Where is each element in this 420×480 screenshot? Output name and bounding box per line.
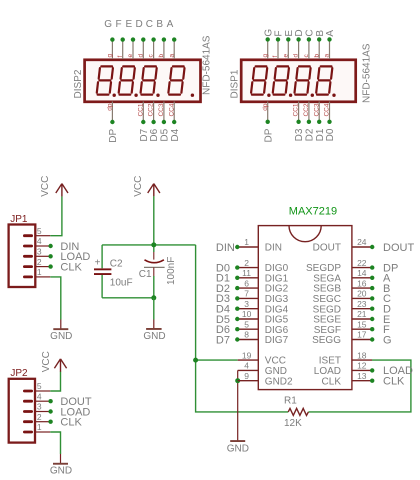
svg-text:22: 22	[357, 258, 367, 268]
svg-text:2: 2	[244, 258, 249, 268]
svg-text:VCC: VCC	[40, 176, 51, 197]
node D2	[235, 286, 239, 290]
wire R1 right to ISET	[308, 360, 411, 412]
pin 12 (LOAD) right	[314, 361, 372, 377]
pin 11 (DIG1) left	[238, 268, 289, 284]
svg-text:17: 17	[357, 330, 367, 340]
node DIN	[235, 245, 239, 249]
connector JP2	[9, 368, 51, 442]
pin 18 (ISET) right	[319, 350, 372, 366]
svg-text:D4: D4	[170, 128, 181, 141]
svg-text:DOUT: DOUT	[313, 243, 341, 254]
pin 16 (SEGB) right	[313, 278, 372, 294]
svg-text:C: C	[146, 19, 153, 30]
svg-text:CC2: CC2	[303, 103, 310, 116]
svg-text:4: 4	[244, 361, 249, 371]
JP2 pins 5 4 3 2 1	[35, 390, 50, 392]
wire C1 bottom to GND	[153, 298, 155, 320]
DISP1 bottom pins dp cc1-cc4	[267, 102, 269, 121]
pin 10 (DIG5) left	[238, 309, 289, 325]
svg-text:5: 5	[37, 381, 42, 391]
JP2 body	[9, 379, 35, 443]
pin 1 (DIN) left	[238, 237, 282, 253]
svg-text:2: 2	[37, 257, 42, 267]
op IC U1 MAX7219	[258, 206, 352, 390]
svg-text:9: 9	[244, 371, 249, 381]
node on JP1 pin 4	[48, 244, 52, 248]
svg-text:23: 23	[357, 299, 367, 309]
node on JP2 pin 2	[48, 420, 52, 424]
svg-text:4: 4	[37, 391, 42, 401]
pin 2 (DIG0) left	[238, 258, 289, 274]
node D7	[235, 337, 239, 341]
svg-text:5: 5	[244, 319, 249, 329]
svg-text:DIN: DIN	[216, 242, 235, 254]
svg-text:3: 3	[244, 299, 249, 309]
svg-text:GND: GND	[50, 331, 72, 342]
wire JP2 pin5 to VCC	[50, 372, 60, 392]
DISP1 digits 8.8.8.8.	[251, 66, 267, 94]
node CLK	[370, 379, 374, 383]
svg-text:A: A	[325, 30, 336, 37]
svg-text:GND: GND	[143, 331, 165, 342]
node D0	[235, 265, 239, 269]
svg-text:CLK: CLK	[60, 417, 82, 429]
svg-text:100nF: 100nF	[166, 257, 177, 285]
svg-text:DP: DP	[263, 128, 274, 142]
pin 15 (SEGF) right	[314, 319, 372, 335]
wire VCC pin19	[196, 359, 238, 361]
svg-text:VCC: VCC	[133, 176, 144, 197]
display DISP1	[229, 29, 372, 143]
svg-text:CC4: CC4	[324, 103, 331, 116]
svg-text:G: G	[383, 334, 392, 346]
capacitor C1	[139, 245, 177, 298]
svg-text:13: 13	[357, 371, 367, 381]
pin 24 (DOUT) right	[313, 237, 372, 253]
svg-text:VCC: VCC	[41, 351, 52, 372]
svg-text:C1: C1	[139, 269, 152, 280]
svg-text:JP2: JP2	[10, 368, 28, 379]
wire VCC to rail	[153, 196, 155, 245]
svg-text:3: 3	[37, 247, 42, 257]
svg-text:g: g	[107, 54, 114, 58]
supply VCC (JP1)	[56, 184, 68, 197]
svg-text:+: +	[95, 258, 101, 269]
svg-text:CLK: CLK	[383, 376, 405, 388]
node on JP2 pin 3	[48, 409, 52, 413]
wire JP1 pin5 to VCC	[50, 196, 62, 236]
svg-text:CLK: CLK	[322, 376, 342, 387]
ground (IC)	[227, 440, 249, 455]
pin 22 (SEGDP) right	[306, 258, 372, 274]
svg-text:F: F	[115, 19, 121, 30]
svg-text:20: 20	[357, 289, 367, 299]
pin 7 (DIG3) left	[238, 289, 289, 305]
resistor R1	[284, 395, 308, 429]
node A	[370, 276, 374, 280]
svg-text:4: 4	[37, 236, 42, 246]
svg-text:3: 3	[37, 402, 42, 412]
pin 23 (SEGD) right	[313, 299, 372, 315]
DISP2 digits 8.8.8.8.	[97, 66, 113, 94]
capacitor C2	[94, 245, 133, 298]
svg-text:5: 5	[37, 226, 42, 236]
svg-text:e: e	[127, 54, 134, 58]
svg-text:11: 11	[242, 268, 251, 278]
svg-text:DIG7: DIG7	[265, 335, 289, 346]
pin 3 (DIG4) left	[238, 299, 289, 315]
node B	[370, 286, 374, 290]
connector JP1	[9, 214, 51, 287]
svg-text:6: 6	[244, 278, 249, 288]
MAX7219 body	[258, 226, 352, 390]
node D6	[235, 327, 239, 331]
pin 13 (CLK) right	[322, 371, 372, 387]
display DISP2	[73, 19, 213, 143]
JP1 body	[9, 225, 36, 288]
svg-text:d: d	[137, 54, 144, 58]
svg-text:16: 16	[357, 278, 367, 288]
svg-text:d: d	[293, 54, 300, 58]
svg-text:NFD-5641AS: NFD-5641AS	[361, 43, 372, 103]
svg-text:10: 10	[242, 309, 252, 319]
node D4	[235, 307, 239, 311]
svg-text:CC3: CC3	[313, 103, 320, 116]
svg-text:8: 8	[244, 330, 249, 340]
svg-text:CC1: CC1	[137, 103, 144, 116]
pin 8 (DIG7) left	[238, 330, 289, 346]
svg-text:21: 21	[357, 309, 367, 319]
svg-text:12: 12	[357, 361, 367, 371]
svg-text:g: g	[262, 54, 269, 58]
node DOUT	[370, 245, 374, 249]
JP2 contacts	[23, 390, 33, 393]
node D3	[235, 296, 239, 300]
ground (JP1)	[50, 320, 72, 342]
svg-text:CC3: CC3	[158, 103, 165, 116]
svg-text:b: b	[158, 54, 165, 58]
node D5	[235, 317, 239, 321]
svg-text:2: 2	[37, 412, 42, 422]
svg-text:DISP2: DISP2	[73, 69, 84, 98]
svg-text:12K: 12K	[284, 418, 302, 429]
svg-text:b: b	[313, 54, 320, 58]
svg-text:DP: DP	[108, 128, 119, 142]
svg-text:CC1: CC1	[293, 103, 300, 116]
svg-text:D: D	[135, 19, 142, 30]
svg-text:GND: GND	[227, 444, 249, 455]
pin 9 (GND2) left	[238, 371, 293, 387]
svg-text:A: A	[167, 19, 174, 30]
wire top rail	[102, 244, 196, 246]
svg-text:a: a	[168, 54, 175, 58]
svg-text:CLK: CLK	[60, 261, 82, 273]
svg-text:D0: D0	[325, 128, 336, 141]
pin 17 (SEGG) right	[312, 330, 372, 346]
svg-text:DISP1: DISP1	[229, 69, 240, 98]
svg-text:10uF: 10uF	[110, 277, 133, 288]
pin 19 (VCC) left	[238, 350, 286, 366]
wire bottom (C2/C1)	[102, 297, 154, 299]
pin 21 (SEGE) right	[313, 309, 372, 325]
wire GND/GND2 to ground	[237, 370, 239, 440]
svg-text:R1: R1	[284, 395, 297, 406]
svg-text:C2: C2	[110, 258, 123, 269]
node C	[370, 296, 374, 300]
DISP1 top pins g f e d c b a	[267, 41, 269, 59]
DISP2 bottom pins dp cc1-cc4	[111, 102, 113, 121]
supply VCC (rail)	[148, 184, 160, 197]
JP1 contacts	[23, 234, 33, 237]
svg-text:CC2: CC2	[148, 103, 155, 116]
svg-text:f: f	[272, 56, 279, 58]
svg-text:f: f	[117, 56, 124, 58]
svg-text:D7: D7	[216, 334, 230, 346]
node D1	[235, 276, 239, 280]
svg-text:dp: dp	[107, 103, 114, 111]
svg-text:15: 15	[357, 319, 367, 329]
svg-text:GND2: GND2	[265, 376, 293, 387]
svg-text:ISET: ISET	[319, 356, 341, 367]
node on JP1 pin 2	[48, 264, 52, 268]
wire JP1 pin1 to GND	[50, 277, 61, 320]
pin 14 (SEGA) right	[313, 268, 372, 284]
svg-text:SEGG: SEGG	[312, 335, 341, 346]
svg-text:E: E	[125, 19, 132, 30]
junction rail/VCC	[151, 242, 156, 247]
svg-text:CC4: CC4	[168, 103, 175, 116]
svg-text:GND: GND	[50, 465, 72, 476]
svg-text:18: 18	[357, 350, 367, 360]
pin 20 (SEGC) right	[313, 289, 372, 305]
svg-text:dp: dp	[262, 103, 269, 111]
JP1 pins 5 4 3 2 1	[35, 235, 50, 237]
svg-text:B: B	[156, 19, 163, 30]
svg-text:1: 1	[244, 237, 249, 247]
ground (JP2)	[50, 454, 72, 476]
pin 5 (DIG6) left	[238, 319, 289, 335]
node on JP2 pin 4	[48, 399, 52, 403]
svg-text:a: a	[324, 54, 331, 58]
node E	[370, 317, 374, 321]
svg-text:24: 24	[357, 237, 367, 247]
svg-text:G: G	[104, 19, 112, 30]
node G	[370, 337, 374, 341]
svg-text:MAX7219: MAX7219	[289, 206, 337, 218]
pin 4 (GND) left	[238, 361, 287, 377]
svg-text:14: 14	[357, 268, 367, 278]
wire rail down the left of IC	[196, 245, 289, 412]
node D	[370, 307, 374, 311]
junction GND2	[235, 378, 240, 383]
DISP2 top pins g f e d c b a	[111, 41, 113, 59]
svg-text:DIN: DIN	[265, 243, 282, 254]
ground (C1)	[143, 320, 165, 342]
svg-text:7: 7	[244, 289, 249, 299]
DISP2 body	[85, 60, 201, 102]
node on JP1 pin 3	[48, 254, 52, 258]
junction C1 bottom	[151, 295, 156, 300]
svg-text:DOUT: DOUT	[383, 242, 414, 254]
pin 6 (DIG2) left	[238, 278, 289, 294]
svg-text:NFD-5641AS: NFD-5641AS	[202, 35, 213, 95]
svg-text:1: 1	[37, 422, 42, 432]
svg-text:e: e	[282, 54, 289, 58]
DISP1 body	[241, 60, 356, 102]
node DP	[370, 265, 374, 269]
svg-text:19: 19	[242, 350, 252, 360]
MAX7219 notch	[289, 226, 321, 242]
svg-text:1: 1	[37, 267, 42, 277]
node LOAD	[370, 368, 374, 372]
node F	[370, 327, 374, 331]
wire JP2 pin1 to GND	[50, 432, 60, 454]
junction pin19/rail	[193, 358, 198, 363]
supply VCC (JP2)	[54, 359, 66, 372]
